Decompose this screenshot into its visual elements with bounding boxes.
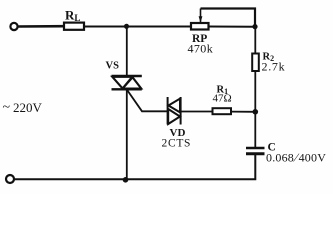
potentiometer RP bbox=[191, 23, 209, 30]
svg-text:~: ~ bbox=[3, 100, 11, 115]
svg-text:2.7k: 2.7k bbox=[262, 60, 286, 74]
capacitor C bbox=[246, 147, 265, 150]
wire (diac to R1) bbox=[181, 111, 213, 113]
wire (RP wiper loop to right node) bbox=[201, 9, 256, 26]
wire (top-left terminal to RL) bbox=[18, 25, 64, 28]
wire (R1 to node B) bbox=[231, 111, 255, 113]
terminal T2 (bottom-left AC input) bbox=[6, 175, 14, 183]
node (bottom rail / triac branch) bbox=[123, 177, 129, 183]
wire (triac gate to diac VD) bbox=[128, 91, 168, 112]
wire (capacitor down to bottom rail corner) bbox=[14, 154, 255, 179]
wire (node B to capacitor C) bbox=[254, 112, 256, 147]
svg-text:0.068 ∕ 400V: 0.068 ∕ 400V bbox=[266, 151, 326, 165]
wire (top node down to triac VS) bbox=[126, 27, 128, 77]
wire (RP to right node) bbox=[209, 26, 256, 28]
wire (node to R2) bbox=[254, 27, 256, 54]
resistor RL bbox=[64, 23, 84, 30]
svg-text:RL: RL bbox=[65, 8, 80, 24]
svg-text:VS: VS bbox=[106, 61, 120, 72]
svg-text:470k: 470k bbox=[188, 42, 214, 56]
wire (triac down to bottom rail) bbox=[126, 89, 128, 180]
svg-text:2CTS: 2CTS bbox=[162, 138, 192, 150]
resistor R1 bbox=[213, 108, 232, 114]
terminal T1 (top-left AC input) bbox=[10, 23, 17, 30]
node (top-right junction) bbox=[252, 24, 257, 29]
svg-text:220V: 220V bbox=[13, 100, 43, 115]
triac VS bbox=[112, 75, 142, 77]
node (top rail / triac branch) bbox=[124, 24, 129, 29]
node B (R1/R2/C junction) bbox=[253, 109, 259, 115]
wiper of RP bbox=[200, 9, 202, 23]
wire (RL to RP) bbox=[84, 26, 191, 28]
resistor R2 bbox=[252, 54, 259, 72]
wire (R2 to node B) bbox=[254, 71, 256, 112]
diac VD bbox=[167, 97, 169, 125]
svg-text:47Ω: 47Ω bbox=[213, 93, 232, 105]
